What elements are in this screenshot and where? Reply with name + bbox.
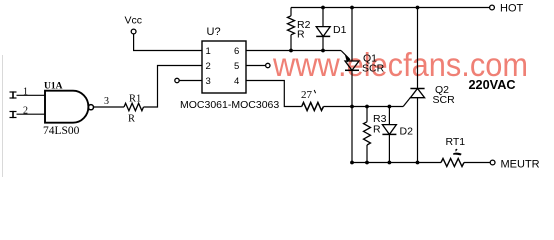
svg-text:D2: D2 [400,126,414,138]
svg-text:3: 3 [206,76,211,87]
svg-text:R1: R1 [129,94,141,105]
wire input1 to gate [17,94,46,96]
svg-text:SCR: SCR [362,63,385,75]
svg-text:R: R [128,114,135,125]
wire input2 to gate [17,113,46,115]
svg-text:2: 2 [23,106,28,117]
SCR Q1 [345,8,385,163]
wire RT1 to MEUTR [464,162,490,164]
thermistor RT1 [441,136,465,167]
svg-text:2: 2 [206,61,211,72]
wire top rail (HOT rail) [291,6,490,10]
svg-text:4: 4 [234,76,239,87]
svg-text:R: R [297,29,305,41]
terminal U pin3 left [175,78,202,82]
svg-text:RT1: RT1 [446,136,466,148]
wire gate output pin 3 [94,96,124,107]
wire R1 to U pin2 [144,66,203,108]
connector input pin 1 [10,87,29,99]
resistor R1 [124,94,144,125]
svg-text:R: R [373,124,381,136]
svg-text:MEUTR: MEUTR [501,159,540,171]
NAND gate U1A 74LS00 [43,81,94,137]
SCR Q2 [410,8,455,163]
svg-text:6: 6 [234,46,239,57]
svg-text:D1: D1 [333,24,347,36]
svg-text:1: 1 [206,46,211,57]
wire bottom rail [350,161,441,165]
svg-text:HOT: HOT [500,3,524,15]
svg-text:U?: U? [207,26,221,38]
svg-text:220VAC: 220VAC [469,78,516,92]
resistor R2 [288,8,311,51]
svg-text:5: 5 [234,61,239,72]
terminal HOT [490,3,524,15]
terminal U pin5 right [246,63,270,67]
svg-text:SCR: SCR [433,94,456,106]
svg-text:27: 27 [301,89,313,101]
resistor 27 [301,89,324,111]
optocoupler U? MOC3061-MOC3063 [180,26,279,111]
svg-text:U1A: U1A [44,81,63,91]
svg-text:3: 3 [104,96,109,107]
wire U pin4 to 27 ohm [246,81,302,107]
wire 27 ohm to Q2 gate [324,98,411,109]
resistor R3 [364,107,387,163]
wire U pin6 to Q1 gate [246,51,351,63]
wire R2/D1 bottom [289,49,325,53]
diode D1 [316,8,346,51]
svg-text:Vcc: Vcc [125,15,143,27]
svg-text:74LS00: 74LS00 [43,125,80,137]
terminal MEUTR [490,159,539,171]
power Vcc [125,15,143,34]
wire Vcc to U pin1 [134,34,202,51]
diode D2 [382,107,413,163]
svg-text:MOC3061-MOC3063: MOC3061-MOC3063 [180,99,279,111]
connector input pin 2 [10,106,29,119]
